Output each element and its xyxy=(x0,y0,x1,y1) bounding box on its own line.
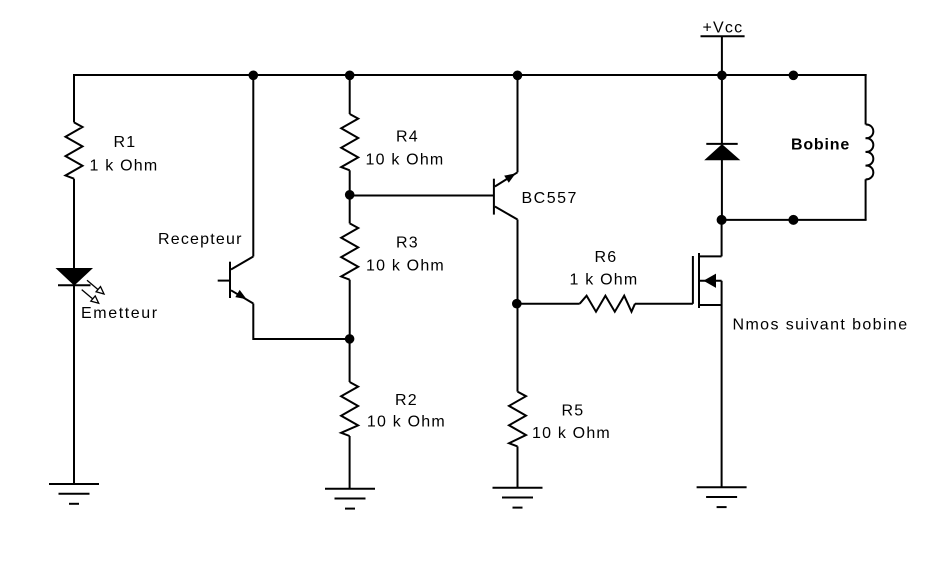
label R5 value xyxy=(532,403,611,442)
svg-text:10 k Ohm: 10 k Ohm xyxy=(532,425,611,442)
wire rail right corner down to coil xyxy=(865,74,867,125)
transistor Q1 Recepteur (NPN phototransistor) xyxy=(218,257,254,304)
label Recepteur xyxy=(158,231,243,248)
LED light arrow 2 xyxy=(82,290,99,304)
label BC557 xyxy=(522,190,578,207)
svg-text:R6: R6 xyxy=(595,249,618,266)
wire rail to BC557 emitter xyxy=(517,75,519,172)
node dot rail/R4 xyxy=(345,71,355,81)
label R2 value xyxy=(367,392,446,431)
wire rail to R4 xyxy=(349,75,351,114)
wire Vcc to rail xyxy=(721,36,723,75)
wire recepteur emitter down and right to node xyxy=(253,304,349,340)
svg-text:R2: R2 xyxy=(395,392,418,409)
wire NMOS source down to ground xyxy=(721,281,723,488)
resistor R6 xyxy=(580,296,635,312)
svg-text:1 k Ohm: 1 k Ohm xyxy=(90,158,159,175)
inductor L1 Bobine xyxy=(866,124,874,179)
svg-text:10 k Ohm: 10 k Ohm xyxy=(367,414,446,431)
wire R6 to gate xyxy=(635,303,693,305)
node dot emitter/R3/R2 xyxy=(345,334,355,344)
resistor R2 xyxy=(341,382,358,436)
svg-text:R3: R3 xyxy=(396,234,419,251)
transistor Q2 BC557 (PNP) xyxy=(494,172,518,219)
resistor R1 xyxy=(66,122,83,178)
node dot rail/BC557 xyxy=(513,71,523,81)
node dot collector/R5/R6 xyxy=(512,299,522,309)
label R6 value xyxy=(570,249,639,289)
transistor Q3 NMOS xyxy=(693,253,722,308)
wire diode to node xyxy=(721,159,723,220)
svg-text:R1: R1 xyxy=(114,134,137,151)
LED D1 Emetteur xyxy=(58,269,91,285)
node dot coil bottom xyxy=(788,215,798,225)
wire BC557 collector down xyxy=(517,220,519,304)
resistor R3 xyxy=(341,223,358,279)
node dot R4/R3/base xyxy=(345,190,355,200)
label Emetteur xyxy=(81,305,159,322)
wire R3 to node xyxy=(349,280,351,339)
svg-text:1 k Ohm: 1 k Ohm xyxy=(570,272,639,289)
ground R5 xyxy=(493,488,543,508)
power +Vcc underline xyxy=(701,35,745,37)
wire left branch x=74 (rail to R1) xyxy=(73,74,75,122)
node dot rail/Vcc/diode xyxy=(717,71,727,81)
wire R4 to node xyxy=(349,170,351,195)
svg-text:R5: R5 xyxy=(562,403,585,420)
wire node to R2 xyxy=(349,339,351,382)
svg-text:Nmos suivant bobine: Nmos suivant bobine xyxy=(733,317,909,334)
node dot rail right xyxy=(789,71,799,81)
label R3 value xyxy=(366,234,445,274)
wire rail to diode xyxy=(721,75,723,144)
wire NMOS drain up xyxy=(721,220,723,257)
svg-text:10 k Ohm: 10 k Ohm xyxy=(366,258,445,275)
label Bobine xyxy=(791,136,850,153)
node dot diode/drain/coil-bottom xyxy=(717,215,727,225)
svg-text:+Vcc: +Vcc xyxy=(703,20,744,37)
ground left xyxy=(49,484,99,504)
wire LED to ground xyxy=(73,285,75,484)
node dot rail/recepteur xyxy=(249,71,259,81)
ground R2 xyxy=(325,489,375,509)
resistor R5 xyxy=(509,392,526,447)
wire R1 to LED xyxy=(73,179,75,269)
svg-text:Emetteur: Emetteur xyxy=(81,305,159,322)
label R4 value xyxy=(366,129,445,169)
label Nmos suivant bobine xyxy=(733,317,909,334)
wire coil bottom horizontal xyxy=(722,219,867,221)
wire top supply rail xyxy=(74,74,867,76)
wire node to R5 xyxy=(517,304,519,392)
label R1 value xyxy=(90,134,159,175)
svg-text:R4: R4 xyxy=(396,129,419,146)
wire base of BC557 xyxy=(350,195,494,197)
resistor R4 xyxy=(341,114,358,170)
LED light arrow 1 xyxy=(87,280,104,294)
wire coil to bottom wire xyxy=(865,179,867,220)
svg-text:BC557: BC557 xyxy=(522,190,578,207)
svg-text:Recepteur: Recepteur xyxy=(158,231,243,248)
ground NMOS source xyxy=(697,487,747,507)
wire R5 to ground xyxy=(517,446,519,487)
wire node to R3 xyxy=(349,196,351,224)
label +Vcc xyxy=(703,20,744,37)
wire node to R6 xyxy=(517,303,580,305)
svg-text:10 k Ohm: 10 k Ohm xyxy=(366,151,445,168)
wire R2 to ground xyxy=(349,436,351,489)
svg-text:Bobine: Bobine xyxy=(791,136,850,153)
diode D2 flyback xyxy=(706,144,737,159)
wire rail to recepteur collector xyxy=(252,75,254,257)
